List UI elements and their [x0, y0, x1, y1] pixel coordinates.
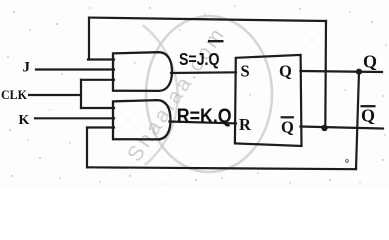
- wire gate2 output to R: [170, 122, 237, 124]
- svg-text:Shaalaa.com: Shaalaa.com: [123, 22, 230, 166]
- wire Q feedback left vertical: [86, 128, 88, 168]
- wire Qbar output: [301, 127, 384, 129]
- speck artifact: [346, 160, 349, 163]
- svg-text:Q: Q: [361, 105, 375, 125]
- wire gate1 output to S: [171, 71, 236, 74]
- svg-text:S: S: [241, 61, 250, 80]
- and-gate G2: [113, 100, 171, 139]
- svg-text:Q: Q: [281, 117, 294, 136]
- wire bottom feedback horizontal: [87, 167, 356, 169]
- svg-text:J: J: [23, 59, 31, 75]
- wire top feedback horizontal: [89, 18, 326, 21]
- svg-text:Q: Q: [363, 51, 377, 71]
- wire feedback vertical A: [324, 21, 327, 128]
- svg-text:K: K: [19, 113, 30, 128]
- svg-text:S=J.Q: S=J.Q: [179, 49, 220, 69]
- scan noise speckles: [3, 5, 386, 184]
- wire CLK branch vertical: [80, 80, 82, 108]
- wire gate1 input1 stub: [88, 58, 114, 60]
- overline over external Qbar: [361, 105, 376, 107]
- watermark outer circle: [143, 25, 178, 165]
- wire gate2 input3 stub: [87, 126, 114, 128]
- watermark inner circle: [146, 16, 272, 172]
- svg-text:R: R: [239, 115, 252, 134]
- sr-flipflop U1: [235, 55, 302, 146]
- wire gate1 input3 stub: [81, 79, 114, 81]
- wire left feedback vertical: [88, 18, 90, 60]
- svg-text:CLK: CLK: [1, 88, 27, 102]
- wire right feedback vertical B: [356, 72, 359, 169]
- watermark text: [123, 22, 230, 166]
- and-gate G1: [113, 52, 172, 91]
- wire K input: [35, 117, 114, 119]
- junction dot on Qbar output: [321, 125, 327, 131]
- wire J input: [36, 68, 114, 70]
- junction dot on Q output: [356, 69, 362, 75]
- wire gate2 input1 stub: [81, 107, 114, 109]
- svg-text:R=K.Q: R=K.Q: [177, 104, 232, 127]
- wire CLK input: [29, 94, 81, 96]
- wire Q output: [301, 71, 383, 72]
- overline over pin Qbar: [281, 116, 294, 118]
- svg-text:Q: Q: [279, 62, 292, 81]
- overline over Q of S label: [208, 40, 224, 42]
